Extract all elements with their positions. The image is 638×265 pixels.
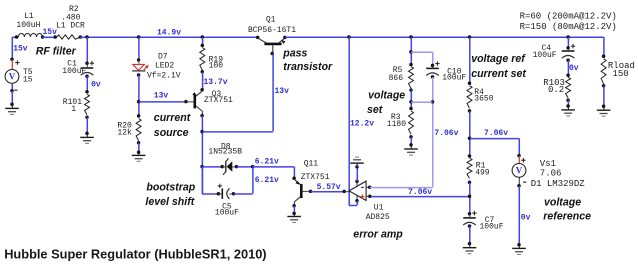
svg-text:BCP56-16T1: BCP56-16T1 [248, 26, 296, 35]
voltage source Vs1 7.06 (LM329DZ reference) [518, 156, 520, 164]
svg-text:0v: 0v [569, 64, 579, 73]
ground (input source) [11, 104, 13, 108]
svg-text:15v: 15v [43, 28, 58, 37]
wire: C1 branch from rail [86, 37, 88, 63]
svg-text:5.57v: 5.57v [317, 183, 341, 192]
svg-text:0.2: 0.2 [548, 85, 564, 95]
svg-text:D7: D7 [158, 52, 168, 61]
voltage source T5 15 [10, 57, 14, 61]
svg-text:100uF: 100uF [442, 74, 466, 83]
wire: C10 jog [411, 51, 433, 53]
ground (Vs1) [518, 245, 520, 249]
wire: Q1 base riser 13v [270, 52, 274, 56]
svg-text:set: set [367, 104, 383, 116]
wire: R20 to ground [138, 143, 140, 153]
LED D7 LED2 [138, 60, 140, 64]
wire: across to Q1 base riser [202, 131, 273, 133]
ground (C7) [469, 244, 471, 248]
wire: R103 to ground [567, 100, 569, 106]
svg-text:Q11: Q11 [304, 159, 319, 168]
resistor R103 0.2 [566, 77, 571, 98]
svg-text:source: source [154, 127, 189, 139]
svg-text:error amp: error amp [353, 228, 403, 240]
wire: D7 to node 13v [138, 75, 140, 116]
wire: R4 to 7.06v reference node [469, 111, 471, 156]
wire: source to ground [11, 91, 13, 104]
svg-text:R=60 (200mA@12.2V): R=60 (200mA@12.2V) [520, 12, 617, 22]
svg-text:14.9v: 14.9v [157, 28, 181, 37]
svg-text:Q1: Q1 [266, 16, 276, 25]
junction D8 left [200, 165, 204, 169]
svg-text:100: 100 [209, 61, 224, 70]
svg-text:current: current [154, 112, 191, 124]
svg-text:current set: current set [471, 68, 526, 80]
resistor Rload 150 [602, 55, 606, 59]
wire: R4 branch from rail (voltage ref current set) [469, 37, 471, 83]
junction C1 branch [85, 35, 89, 39]
svg-text:7.06v: 7.06v [434, 129, 458, 138]
ground (R20) [138, 152, 140, 155]
svg-text:Hubble Super Regulator (Hubble: Hubble Super Regulator (HubbleSR1, 2010) [4, 247, 266, 262]
junction R19 branch [201, 35, 205, 39]
svg-text:100uF: 100uF [215, 209, 239, 218]
svg-text:1: 1 [71, 105, 76, 114]
svg-text:15v: 15v [13, 45, 28, 54]
svg-text:6.21v: 6.21v [255, 176, 279, 185]
wire: input top rail from source corner to L1 [12, 36, 18, 38]
svg-text:0v: 0v [521, 213, 531, 222]
capacitor C7 100uF [469, 214, 471, 217]
op-amp U1 AD825 (error amp, mirrored) [344, 191, 349, 193]
ground (R3) [410, 145, 412, 149]
junction plus input node [468, 195, 472, 199]
svg-text:3650: 3650 [474, 95, 493, 104]
svg-text:voltage: voltage [368, 90, 405, 102]
resistor R20 12k [137, 114, 141, 118]
svg-text:L1 DCR: L1 DCR [56, 22, 85, 31]
svg-text:LED2: LED2 [155, 62, 174, 71]
wire: R5 to R3 junction [410, 90, 412, 108]
svg-text:0v: 0v [91, 80, 101, 89]
resistor R2 [57, 35, 80, 39]
svg-text:D1 LM329DZ: D1 LM329DZ [531, 179, 586, 189]
capacitor C5 100uF (bootstrap) [218, 193, 221, 195]
svg-text:15: 15 [23, 75, 33, 84]
wire: output rail 12.2v segment [285, 36, 604, 38]
wire: R101 to ground [86, 117, 88, 133]
svg-text:V: V [516, 166, 523, 176]
svg-text:6.21v: 6.21v [255, 157, 279, 166]
ground (C1/R101) [86, 133, 88, 137]
wire: R1 to plus-input junction [469, 182, 471, 213]
wire: R3 to ground [410, 137, 412, 145]
wire: R5 branch from rail [410, 37, 412, 65]
svg-text:13v: 13v [275, 87, 290, 96]
svg-text:7.06v: 7.06v [484, 129, 508, 138]
svg-text:100uF: 100uF [480, 223, 504, 232]
junction D7 branch [137, 35, 141, 39]
wire: Q3 collector down to D8 node [201, 116, 203, 194]
wire: junction to C10 leg [411, 101, 433, 103]
svg-text:12.2v: 12.2v [350, 120, 374, 129]
svg-text:13.7v: 13.7v [204, 78, 228, 87]
svg-text:100uF: 100uF [533, 51, 557, 60]
junction R5 branch [409, 35, 413, 39]
junction C10 tap [409, 50, 413, 54]
wire: reference node across to Vs1 [470, 138, 520, 140]
wire: C7 to ground [469, 226, 471, 244]
wire: R19 branch from rail [202, 37, 204, 45]
ground (Q11) [293, 213, 295, 216]
transistor Q1 BCP56-16T1 (pass) [256, 36, 260, 40]
svg-text:L1: L1 [24, 12, 34, 21]
wire: R19 to Q3 emitter [202, 72, 204, 90]
wire: Rload drop from rail corner [603, 37, 605, 56]
svg-text:R=150 (80mA@12.2V): R=150 (80mA@12.2V) [520, 22, 617, 32]
resistor R5 866 [409, 63, 413, 67]
junction D8 right 6.21v node [251, 165, 255, 169]
svg-text:866: 866 [389, 74, 404, 83]
resistor R101 1 [85, 94, 90, 115]
ground (op-amp V-, inverted above) [356, 163, 358, 167]
svg-text:ZTX751: ZTX751 [301, 173, 330, 182]
svg-text:transistor: transistor [283, 61, 333, 73]
resistor R4 3650 [467, 86, 472, 109]
junction Q3 collector / Q1 base [200, 130, 204, 134]
resistor R1 499 [468, 154, 472, 158]
wire: 13v node to Q3 base [139, 101, 186, 103]
svg-text:V: V [9, 72, 16, 82]
junction 7.06v reference node [468, 137, 472, 141]
transistor Q11 ZTX751 (level shift) [300, 184, 303, 198]
resistor R3 1180 [409, 107, 413, 111]
svg-text:voltage ref: voltage ref [471, 53, 526, 65]
svg-text:U1: U1 [374, 203, 384, 212]
svg-text:7.06: 7.06 [540, 169, 562, 179]
svg-text:499: 499 [475, 169, 490, 178]
wire: Q11 base to op-amp output [311, 191, 345, 193]
ground (Rload) [603, 106, 605, 110]
wire: op-amp supply from rail down and under [348, 37, 350, 205]
wire: 6.21v node to Q11 emitter [253, 166, 295, 168]
svg-text:1N5235B: 1N5235B [208, 148, 242, 157]
wire: C1 to R101 [86, 76, 88, 92]
resistor R19 100 [200, 48, 205, 71]
svg-text:AD825: AD825 [366, 213, 390, 222]
svg-text:12k: 12k [117, 128, 132, 137]
svg-text:Vs1: Vs1 [540, 159, 556, 169]
svg-text:R2: R2 [69, 5, 79, 14]
junction 13v node [137, 100, 141, 104]
svg-text:7.06v: 7.06v [408, 188, 432, 197]
svg-text:13v: 13v [154, 91, 169, 100]
capacitor C10 100uF [432, 65, 434, 67]
svg-text:level shift: level shift [145, 196, 194, 208]
svg-text:RF filter: RF filter [36, 45, 77, 57]
wire: Q11 collector to ground [293, 206, 295, 214]
junction C4 branch [566, 35, 570, 39]
svg-text:pass: pass [282, 48, 307, 60]
wire: top rail 14.9v segment to Q1 collector [80, 36, 257, 38]
svg-text:150: 150 [613, 69, 629, 79]
wire: C4 to R103 [567, 60, 569, 75]
svg-text:voltage: voltage [544, 197, 581, 209]
wire: C5 right leg up to 6.21v node [234, 193, 253, 195]
svg-text:Vf=2.1V: Vf=2.1V [147, 72, 181, 81]
inductor L1 [18, 34, 42, 38]
junction op-amp supply drop [347, 35, 351, 39]
wire: op-amp minus input feedback (light) [370, 187, 433, 189]
capacitor C1 100uF [86, 63, 88, 67]
wire: between L1 and R2 [43, 36, 57, 38]
svg-text:1180: 1180 [387, 120, 406, 129]
transistor Q3 ZTX751 (pnp current source) [194, 94, 197, 108]
wire: C4 branch from rail [567, 37, 569, 48]
ground (R103) [567, 106, 569, 110]
wire: op-amp plus input to reference node [371, 196, 470, 198]
svg-text:bootstrap: bootstrap [146, 182, 195, 194]
capacitor C4 100uF [567, 48, 569, 50]
junction R4 branch [468, 35, 472, 39]
svg-text:reference: reference [543, 210, 591, 222]
svg-text:100uH: 100uH [16, 21, 40, 30]
wire: Rload to ground [603, 86, 605, 107]
wire: C10 bottom to 7.06v node [432, 77, 434, 102]
svg-text:100uF: 100uF [62, 67, 86, 76]
svg-text:ZTX751: ZTX751 [204, 96, 233, 105]
wire: Vs1 to ground [518, 186, 520, 245]
wire: D7 branch from rail [138, 37, 140, 60]
wire: C5 left leg [201, 167, 203, 194]
